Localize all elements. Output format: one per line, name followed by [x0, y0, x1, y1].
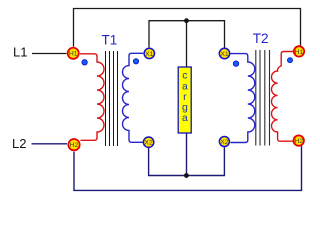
svg-text:X2: X2 [220, 139, 229, 146]
svg-text:L1: L1 [13, 45, 27, 60]
svg-text:H1: H1 [69, 51, 78, 58]
svg-text:L2: L2 [12, 136, 26, 151]
svg-text:H1: H1 [295, 49, 304, 56]
svg-text:X2: X2 [144, 140, 153, 147]
svg-text:H2: H2 [294, 138, 303, 145]
svg-text:X1: X1 [145, 51, 154, 58]
svg-text:a: a [182, 112, 188, 124]
svg-text:T1: T1 [102, 33, 118, 48]
svg-text:H2: H2 [70, 142, 79, 149]
svg-text:T2: T2 [253, 31, 269, 46]
svg-text:X1: X1 [220, 51, 229, 58]
